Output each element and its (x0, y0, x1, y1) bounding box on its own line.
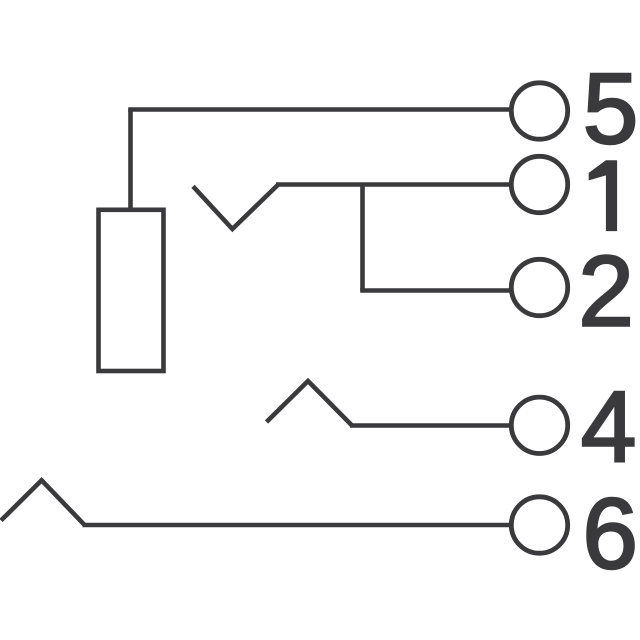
svg-text:4: 4 (581, 371, 637, 483)
svg-text:2: 2 (578, 236, 634, 348)
wire: sleeve to pin 5 (vertical riser) (128, 110, 133, 208)
pin 4 terminal circle (511, 397, 567, 453)
switch contact SW2 (ring lever, pin 4) (267, 381, 353, 426)
pin 5 terminal circle (511, 83, 567, 139)
pin 6 terminal circle (511, 497, 567, 553)
wire: contact to pin 1 (276, 182, 510, 187)
svg-text:5: 5 (583, 53, 639, 165)
wire: contact to pin 6 (83, 523, 511, 528)
svg-text:6: 6 (582, 478, 638, 590)
wire: top horizontal to pin 5 (128, 107, 509, 112)
wire: branch horizontal to pin 2 (360, 288, 510, 293)
pin 2 terminal circle (511, 259, 567, 315)
wire: branch node to pin 2 (vertical) (360, 185, 365, 291)
switch contact SW1 (tip lever, pin 1) (193, 185, 278, 230)
connector body J1 (jack sleeve rectangle) (99, 210, 164, 371)
pin number 1 (589, 160, 617, 231)
pin 1 terminal circle (511, 156, 567, 212)
switch contact SW3 (shunt lever, pin 6) (1, 480, 84, 525)
wire: contact to pin 4 (350, 423, 510, 428)
